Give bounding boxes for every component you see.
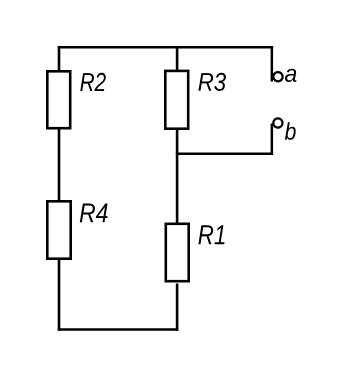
wire R4 to bottom node [58,259,61,331]
label R4 [80,204,108,223]
wire top node to R3 [176,46,179,71]
wire b branch horizontal [176,152,273,155]
wire R2 to R4 [58,128,61,201]
label b [285,122,296,140]
resistor R1 [166,224,189,281]
label a [285,69,297,82]
wire bottom to R1 [176,284,179,331]
label R1 [198,225,224,244]
label R3 [198,73,226,91]
resistor R3 [165,71,188,129]
wire R3 to R1 (through node b branch) [176,129,179,224]
terminal a [273,72,282,81]
terminal b [273,118,282,127]
wire bottom horizontal [58,328,179,331]
wire left vertical (top node to R2) [58,46,61,71]
resistor R4 [47,201,70,258]
label R2 [80,73,106,91]
wire right vertical (top node to terminal a) [271,46,274,81]
wire top horizontal [58,46,273,49]
wire terminal b down [271,124,274,155]
resistor R2 [47,71,70,128]
